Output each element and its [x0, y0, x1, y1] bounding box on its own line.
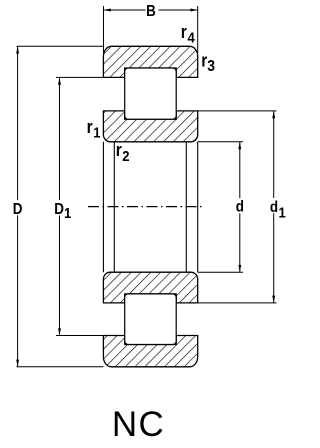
roller top — [125, 68, 177, 119]
arrow D1 bottom — [58, 328, 61, 335]
dimension D1 extension top — [56, 76, 103, 78]
svg-text:D: D — [54, 201, 64, 218]
dimension B extension line right — [197, 6, 199, 53]
arrow d1 top — [272, 111, 275, 118]
svg-text:2: 2 — [122, 148, 130, 164]
svg-text:1: 1 — [93, 125, 101, 141]
arrow D1 top — [58, 77, 61, 84]
dimension D extension top — [17, 45, 104, 47]
svg-text:B: B — [146, 3, 156, 20]
svg-text:4: 4 — [188, 30, 196, 46]
inner ring top section — [103, 111, 197, 142]
bore silhouette right face line — [197, 142, 199, 272]
outer ring top section — [103, 46, 197, 77]
dimension D1 extension bottom — [56, 335, 103, 337]
svg-text:3: 3 — [207, 59, 215, 76]
roller bottom — [125, 294, 177, 345]
svg-text:1: 1 — [279, 205, 287, 221]
dimension d extension top — [198, 141, 243, 143]
outer ring bottom section — [103, 336, 197, 367]
dimension B extension line left — [103, 6, 105, 53]
arrow d bottom — [238, 265, 241, 272]
dimension d line — [239, 142, 241, 199]
bore chamfer line right — [185, 142, 187, 272]
inner ring bottom section — [103, 272, 197, 303]
centerline (axis) — [88, 206, 203, 208]
svg-text:D: D — [13, 201, 23, 218]
dimension d extension bottom — [198, 271, 243, 273]
svg-text:r: r — [116, 140, 122, 161]
svg-text:1: 1 — [64, 205, 72, 221]
bore chamfer line left — [113, 142, 115, 272]
svg-text:r: r — [87, 117, 93, 138]
arrow B right — [190, 9, 197, 12]
dimension d1 extension bottom — [198, 302, 277, 304]
dimension D line — [17, 46, 19, 200]
arrow d top — [238, 142, 241, 149]
dimension d1 extension top — [198, 110, 277, 112]
svg-text:r: r — [181, 22, 187, 43]
arrow B left — [104, 9, 111, 12]
svg-text:d: d — [270, 199, 278, 216]
arrow d1 bottom — [272, 296, 275, 303]
svg-text:NC: NC — [112, 405, 165, 444]
arrow D top — [16, 46, 19, 53]
bore silhouette left face line — [102, 142, 104, 272]
dimension d1 line — [273, 111, 275, 198]
dimension D extension bottom — [17, 366, 104, 368]
arrow D bottom — [16, 360, 19, 367]
svg-text:d: d — [236, 199, 244, 216]
dimension D1 line — [59, 77, 61, 199]
dimension B line — [104, 9, 146, 11]
